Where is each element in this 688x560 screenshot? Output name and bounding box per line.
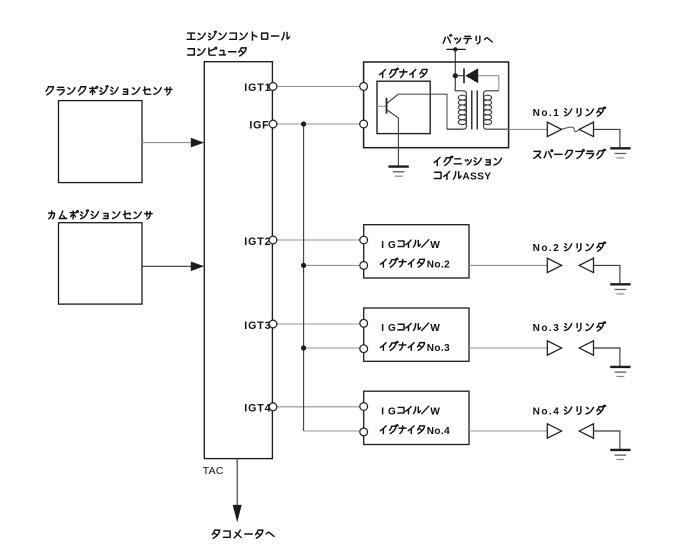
IG coil with igniter No.3 box	[364, 308, 469, 361]
wire coil No.2 to spark plug	[469, 264, 547, 266]
svg-text:No.2: No.2	[427, 260, 450, 271]
ignition coil assy box (No.1)	[364, 62, 509, 148]
transformer T1 secondary winding	[484, 91, 509, 129]
crank position sensor box	[59, 101, 143, 183]
label "No.3シリンダ" latin part	[533, 323, 561, 334]
pin label IGF	[249, 119, 269, 131]
IGF bus vertical wire	[303, 124, 305, 431]
transistor Q1 collector stroke	[387, 94, 399, 104]
label "コイル" in box No.3	[398, 323, 421, 330]
battery terminal dot	[453, 47, 457, 51]
pin label IGT1	[244, 82, 271, 94]
label "シリンダ" No.2 kana	[565, 242, 606, 251]
label "イグナイタ" (igniter)	[380, 68, 428, 77]
label "イグニッション" (ignition)	[434, 156, 501, 165]
igniter terminal IGF	[360, 120, 368, 128]
junction dot IGF at bus	[301, 121, 306, 126]
junction dot battery-diode	[453, 73, 458, 78]
spark plug No.3 electrode right triangle	[579, 341, 593, 355]
coil box No.2 upper terminal	[360, 236, 368, 244]
pin label TAC	[203, 466, 224, 477]
label "コイル" of コイルASSY	[434, 171, 461, 179]
wire IGT3 ECU to coil No.3	[272, 323, 363, 325]
spark plug No.1 electrode right triangle	[579, 122, 593, 136]
label "イグナイタ" in box No.2	[380, 258, 424, 267]
label "コンピュータ" (computer)	[188, 47, 247, 56]
transformer T1 primary winding	[448, 91, 467, 129]
transistor Q1 base bar	[386, 98, 388, 114]
label "コイル" in box No.4	[398, 407, 421, 414]
wire spark plug No.1 to ground	[594, 129, 620, 147]
wire crank sensor to ECU	[142, 142, 193, 144]
label "No.1シリンダ" (cylinder) latin part	[533, 108, 561, 119]
label "スパークプラグ" (spark plug)	[534, 149, 606, 158]
svg-text:I: I	[381, 323, 384, 334]
label full-width slash No.3	[421, 323, 429, 331]
svg-text:I: I	[381, 406, 384, 417]
svg-text:G: G	[388, 323, 396, 334]
label "コイル" in box No.2	[398, 240, 421, 247]
svg-text:IGT4: IGT4	[244, 403, 271, 415]
ground spark plug No.1	[610, 148, 630, 158]
label "ASSY"	[462, 172, 491, 183]
arrowhead to tachometer	[233, 505, 242, 523]
label "W" No.3	[430, 323, 440, 334]
coil box No.2 lower terminal	[360, 262, 368, 270]
svg-text:G: G	[388, 406, 396, 417]
svg-text:No.1: No.1	[533, 108, 561, 119]
ground igniter	[388, 167, 408, 177]
label full-width slash No.4	[421, 406, 429, 414]
transistor base wire	[377, 105, 386, 107]
label "シリンダ" No.1 kana	[565, 107, 606, 116]
wire TAC to tachometer	[236, 459, 238, 506]
cam position sensor box	[59, 223, 143, 304]
diode D1 cathode bar	[463, 68, 465, 83]
pin label IGT2	[244, 236, 271, 248]
diode D1 triangle	[465, 68, 478, 83]
wire IGF branch to coil No.2	[304, 264, 364, 266]
ground spark plug No.4	[610, 450, 630, 460]
terminal IGF on ECU	[269, 120, 277, 128]
label "IGコイル/W" No.3 latin I G	[381, 323, 396, 334]
svg-text:IGF: IGF	[249, 119, 269, 131]
label "イグナイタ" in box No.4	[380, 425, 424, 434]
battery terminal tick	[446, 48, 466, 50]
wire IGT4 ECU to coil No.4	[272, 406, 363, 408]
label "No.4シリンダ" latin part	[533, 406, 561, 417]
label "W" No.4	[430, 406, 440, 417]
spark plug No.3 electrode left triangle	[547, 341, 561, 355]
IG coil with igniter No.4 box	[364, 391, 469, 444]
IG coil with igniter No.2 box	[364, 225, 469, 278]
label "カムポジションセンサ" (cam position sensor)	[49, 210, 152, 219]
label "IGコイル/W" No.4 latin I G	[381, 406, 396, 417]
spark plug No.2 electrode right triangle	[579, 258, 593, 272]
terminal IGT1 on ECU	[269, 83, 277, 91]
wire IGT1 ECU to igniter No.1	[272, 85, 363, 87]
label "クランクポジションセンサ" (crank position sensor)	[46, 86, 172, 95]
label "シリンダ" No.3 kana	[565, 322, 606, 331]
coil box No.4 upper terminal	[360, 403, 368, 411]
label "No.2シリンダ" latin part	[533, 243, 561, 254]
wire battery feed vertical	[454, 49, 456, 91]
label "シリンダ" No.4 kana	[565, 405, 606, 414]
wire emitter to ground	[397, 118, 399, 166]
wire IGF branch to coil No.3	[304, 347, 364, 349]
wire IGF ECU to igniter No.1	[272, 123, 363, 125]
svg-text:IGT2: IGT2	[244, 236, 271, 248]
arrowhead crank to ECU	[191, 138, 204, 148]
coil box No.3 lower terminal	[360, 345, 368, 353]
wire spark plug No.2 to ground	[594, 265, 620, 283]
junction dot bus to No.3	[301, 345, 306, 350]
wire IGF branch to coil No.4	[304, 430, 364, 432]
svg-text:ASSY: ASSY	[462, 172, 491, 183]
transistor Q1 emitter stroke	[387, 110, 399, 118]
svg-text:W: W	[430, 323, 440, 334]
spark plug No.4 electrode right triangle	[579, 424, 593, 438]
spark gap squiggle No.1	[562, 127, 579, 132]
coil box No.3 upper terminal	[360, 319, 368, 327]
svg-text:IGT1: IGT1	[244, 82, 271, 94]
wire cam sensor to ECU	[142, 265, 193, 267]
spark plug No.4 electrode left triangle	[547, 424, 561, 438]
svg-text:No.3: No.3	[427, 343, 450, 354]
svg-text:W: W	[430, 240, 440, 251]
ECU box (engine control computer)	[204, 62, 272, 459]
svg-text:G: G	[388, 240, 396, 251]
wire collector to primary coil	[398, 94, 463, 129]
wire IGT2 ECU to coil No.2	[272, 239, 363, 241]
terminal IGT3 on ECU	[269, 320, 277, 328]
svg-text:No.4: No.4	[427, 426, 450, 437]
igniter terminal IGT1	[360, 83, 368, 91]
ground spark plug No.2	[610, 284, 630, 294]
label "No.2" in box	[427, 260, 450, 271]
spark plug No.1 electrode left triangle	[547, 122, 561, 136]
junction dot bus to No.2	[301, 263, 306, 268]
label full-width slash No.2	[421, 239, 429, 247]
label "No.4" in box	[427, 426, 450, 437]
svg-text:No.4: No.4	[533, 406, 561, 417]
label "IGコイル/W" No.2 latin I G	[381, 240, 396, 251]
wire spark plug No.4 to ground	[594, 431, 620, 449]
pin label IGT4	[244, 403, 271, 415]
arrowhead cam to ECU	[191, 262, 204, 272]
wire coil No.1 to spark plug	[509, 128, 548, 130]
igniter inner box	[377, 81, 430, 133]
terminal IGT2 on ECU	[269, 236, 277, 244]
svg-text:I: I	[381, 240, 384, 251]
label "No.3" in box	[427, 343, 450, 354]
label "W" No.2	[430, 240, 440, 251]
wire coil No.3 to spark plug	[469, 347, 547, 349]
label "エンジンコントロール" (engine control)	[187, 31, 290, 40]
ground spark plug No.3	[610, 367, 630, 377]
label "イグナイタ" in box No.3	[380, 341, 424, 350]
svg-text:TAC: TAC	[203, 466, 224, 477]
pin label IGT3	[244, 320, 271, 332]
transformer T1 core	[472, 90, 477, 129]
wire diode to secondary top	[478, 76, 499, 91]
label "タコメータへ" (to tachometer)	[212, 530, 274, 538]
wire coil No.4 to spark plug	[469, 430, 547, 432]
wire spark plug No.3 to ground	[594, 348, 620, 366]
label "バッテリへ" (to battery)	[443, 35, 492, 44]
coil box No.4 lower terminal	[360, 428, 368, 436]
spark plug No.2 electrode left triangle	[547, 258, 561, 272]
terminal IGT4 on ECU	[269, 403, 277, 411]
svg-text:W: W	[430, 406, 440, 417]
svg-text:No.2: No.2	[533, 243, 561, 254]
svg-text:IGT3: IGT3	[244, 320, 271, 332]
wire dot to diode	[455, 75, 464, 77]
svg-text:No.3: No.3	[533, 323, 561, 334]
